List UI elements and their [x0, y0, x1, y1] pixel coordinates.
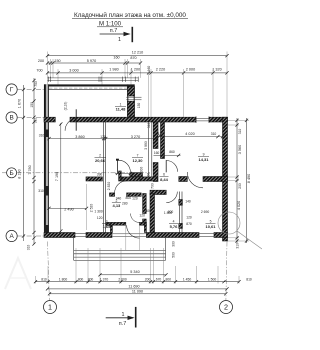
right wall — [223, 117, 228, 241]
svg-text:2 220: 2 220 — [156, 68, 165, 72]
svg-text:140: 140 — [185, 199, 191, 203]
door to room 7 — [116, 159, 130, 173]
svg-text:1 500: 1 500 — [208, 277, 217, 281]
svg-text:4 020: 4 020 — [185, 132, 194, 136]
svg-text:900: 900 — [119, 177, 125, 181]
detail circle — [218, 212, 240, 234]
svg-text:20,66: 20,66 — [95, 158, 106, 163]
svg-text:5,76: 5,76 — [170, 224, 179, 229]
porch steps — [74, 238, 176, 260]
section mark top — [100, 27, 133, 43]
wall W6b y192 — [110, 190, 178, 214]
top wall — [44, 84, 135, 86]
svg-text:810: 810 — [246, 277, 252, 281]
svg-text:7 780: 7 780 — [28, 165, 32, 174]
bottom dim row — [34, 277, 252, 283]
wall row В — [44, 116, 228, 123]
dim 5340 — [98, 270, 167, 276]
svg-text:940: 940 — [116, 197, 122, 201]
wc door arc — [115, 181, 127, 193]
svg-text:2 000: 2 000 — [118, 277, 127, 281]
svg-text:120: 120 — [132, 197, 138, 201]
entrance door bottom — [127, 225, 140, 238]
svg-text:п.7: п.7 — [110, 28, 117, 34]
title text — [72, 11, 188, 27]
svg-text:1: 1 — [118, 37, 121, 43]
svg-text:1 300: 1 300 — [146, 173, 150, 182]
svg-text:500: 500 — [172, 252, 176, 258]
interior dim labels middle — [55, 172, 210, 226]
interior dimension labels row y136 — [39, 123, 217, 176]
wall row Б left part — [86, 171, 143, 181]
svg-text:670: 670 — [156, 277, 162, 281]
section mark bottom — [106, 307, 136, 328]
svg-text:150: 150 — [137, 103, 141, 109]
left vertical dim line 2 — [27, 78, 44, 250]
svg-text:310: 310 — [238, 129, 242, 135]
svg-text:8,44: 8,44 — [160, 177, 169, 182]
svg-text:870: 870 — [186, 222, 192, 226]
svg-text:1: 1 — [122, 312, 125, 318]
svg-text:800: 800 — [126, 196, 132, 200]
partition P_B x179-182.5 — [179, 192, 183, 233]
svg-text:Г: Г — [10, 87, 14, 94]
svg-text:11 090: 11 090 — [132, 289, 143, 293]
svg-text:120: 120 — [158, 132, 164, 136]
svg-text:800: 800 — [88, 277, 94, 281]
svg-text:310: 310 — [38, 189, 44, 193]
top thin eaves lines with window jamb ticks — [48, 77, 139, 82]
svg-text:2 300: 2 300 — [139, 167, 143, 176]
svg-text:300: 300 — [145, 209, 151, 213]
svg-text:1 800: 1 800 — [164, 211, 173, 215]
svg-text:12 210: 12 210 — [132, 50, 143, 54]
dimension row 3: 700 3000 1980 1200 160 2220 2000 1320 — [36, 66, 228, 118]
svg-text:В: В — [9, 115, 13, 122]
svg-text:4,13: 4,13 — [113, 203, 122, 208]
svg-text:(2,10): (2,10) — [64, 102, 68, 111]
svg-text:3 860: 3 860 — [75, 135, 84, 139]
svg-text:160: 160 — [113, 55, 119, 59]
svg-text:150: 150 — [54, 59, 60, 63]
bottom wall — [44, 233, 228, 238]
dimension row 2: 200 150 5970 160 870 — [38, 55, 142, 78]
svg-text:200: 200 — [238, 183, 242, 189]
axis dim row 11 090 — [48, 289, 228, 295]
svg-text:310: 310 — [147, 123, 151, 129]
svg-text:7 190: 7 190 — [55, 172, 59, 181]
svg-text:2 700: 2 700 — [150, 183, 154, 192]
right dim lines — [228, 118, 252, 249]
svg-text:11 690: 11 690 — [128, 285, 139, 289]
dimension row overall 12 210 — [46, 50, 229, 120]
svg-text:310: 310 — [211, 132, 217, 136]
grid bubbles bottom — [44, 301, 233, 314]
wall row Б right part — [179, 172, 228, 188]
svg-text:120: 120 — [186, 216, 192, 220]
svg-text:2: 2 — [224, 303, 228, 312]
recessed entrance walls — [106, 222, 147, 250]
svg-text:3 000: 3 000 — [69, 69, 78, 73]
entrance door in В wall — [64, 102, 78, 131]
svg-text:1 370: 1 370 — [100, 277, 109, 281]
svg-text:800: 800 — [78, 277, 84, 281]
bottom overall 11690 — [46, 285, 229, 291]
svg-text:8 490: 8 490 — [247, 174, 251, 183]
svg-text:п.7: п.7 — [119, 321, 126, 327]
svg-text:М 1:100: М 1:100 — [99, 20, 122, 27]
svg-text:1: 1 — [48, 303, 52, 312]
svg-text:1,65: 1,65 — [103, 224, 112, 229]
svg-text:200: 200 — [145, 277, 151, 281]
svg-text:1 670: 1 670 — [18, 99, 22, 108]
svg-text:14,31: 14,31 — [198, 157, 209, 162]
left wall — [44, 84, 49, 232]
svg-text:750: 750 — [34, 81, 38, 87]
left vertical dim line 1 — [18, 85, 26, 241]
svg-text:А: А — [9, 233, 14, 240]
bottom extension lines — [36, 242, 240, 301]
svg-text:3 560: 3 560 — [238, 145, 242, 154]
svg-text:2 690: 2 690 — [201, 210, 210, 214]
partition A x153-158 with vent block — [149, 122, 181, 182]
partition P0 vertical x104 — [104, 122, 106, 233]
svg-text:1 200: 1 200 — [131, 68, 140, 72]
svg-text:310: 310 — [34, 118, 38, 124]
room labels — [95, 103, 217, 229]
svg-text:150: 150 — [30, 102, 34, 108]
svg-text:1 450: 1 450 — [183, 277, 192, 281]
svg-text:1 800: 1 800 — [59, 277, 68, 281]
svg-text:120: 120 — [100, 135, 106, 139]
svg-text:870: 870 — [130, 56, 136, 60]
svg-text:11,48: 11,48 — [116, 107, 127, 112]
svg-text:2 520: 2 520 — [90, 204, 94, 213]
svg-text:310: 310 — [27, 245, 31, 251]
svg-text:200: 200 — [38, 59, 44, 63]
svg-text:5 970: 5 970 — [87, 59, 96, 63]
svg-text:5 340: 5 340 — [130, 270, 139, 274]
svg-text:2 490: 2 490 — [64, 208, 73, 212]
svg-text:1 320: 1 320 — [212, 68, 221, 72]
svg-text:8 190: 8 190 — [18, 169, 22, 178]
svg-text:310: 310 — [236, 243, 240, 249]
svg-text:810: 810 — [41, 277, 47, 281]
svg-text:280: 280 — [122, 201, 128, 205]
svg-text:Б: Б — [9, 170, 13, 177]
upper right wall of strip — [127, 84, 129, 117]
svg-text:4 020: 4 020 — [237, 201, 241, 210]
svg-text:390: 390 — [97, 173, 103, 177]
svg-text:120: 120 — [97, 216, 103, 220]
svg-text:1 300: 1 300 — [94, 209, 103, 213]
svg-text:700: 700 — [36, 69, 42, 73]
grid bubbles left — [2, 84, 150, 242]
svg-text:2 830: 2 830 — [107, 182, 111, 191]
svg-text:160: 160 — [154, 151, 160, 155]
svg-text:3 270: 3 270 — [131, 135, 140, 139]
faint watermark stroke — [5, 258, 31, 289]
svg-text:10,61: 10,61 — [205, 224, 216, 229]
svg-text:860: 860 — [169, 150, 175, 154]
svg-text:800: 800 — [166, 277, 172, 281]
interior dimension chain lines — [47, 122, 224, 232]
svg-text:300: 300 — [172, 241, 176, 247]
svg-text:Кладочный план этажа на отм. ±: Кладочный план этажа на отм. ±0,000 — [74, 11, 186, 19]
svg-text:12,30: 12,30 — [132, 158, 143, 163]
svg-text:2 000: 2 000 — [186, 68, 195, 72]
svg-text:120: 120 — [139, 214, 145, 218]
svg-text:1 980: 1 980 — [109, 68, 118, 72]
detail leader line — [237, 231, 262, 249]
svg-text:3 990: 3 990 — [144, 141, 148, 150]
svg-text:310: 310 — [39, 134, 45, 138]
tambour partitions — [131, 173, 158, 233]
